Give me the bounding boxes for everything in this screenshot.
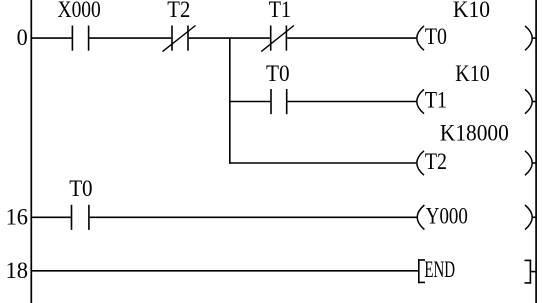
- svg-text:K18000: K18000: [440, 121, 509, 146]
- svg-text:T0: T0: [425, 24, 447, 49]
- svg-text:K10: K10: [453, 0, 490, 22]
- svg-text:Y000: Y000: [426, 203, 468, 228]
- instruction END: [418, 257, 536, 284]
- branch wire (vertical) from rung0 down to rung of T2 coil: [229, 37, 231, 164]
- svg-text:T2: T2: [167, 0, 190, 22]
- coil T0: [417, 24, 536, 50]
- svg-text:T0: T0: [266, 61, 290, 86]
- svg-text:X000: X000: [58, 0, 101, 22]
- left power rail: [30, 0, 32, 303]
- svg-text:K10: K10: [455, 61, 489, 86]
- wire rung16: T0 to coil Y000: [90, 216, 417, 218]
- coil T2: [417, 149, 536, 175]
- coil Y000: [417, 203, 535, 229]
- svg-text:T0: T0: [69, 176, 92, 201]
- wire rung16: rail to T0: [32, 216, 71, 218]
- coil T1: [417, 88, 536, 114]
- wire rung2: branch to contact T0: [230, 101, 270, 103]
- svg-text:16: 16: [6, 205, 28, 230]
- contact X000 (NO): [72, 26, 88, 51]
- right power rail: [535, 0, 537, 303]
- svg-text:T1: T1: [425, 88, 447, 113]
- svg-text:18: 18: [6, 258, 29, 283]
- wire rung18: rail to END instruction: [32, 270, 418, 272]
- wire rung3: branch to coil T2: [230, 162, 416, 164]
- contact T0 (NO, rung16): [72, 205, 89, 230]
- wire rung2: T0 to coil T1: [288, 101, 417, 103]
- contact T1 (NC): [261, 26, 294, 52]
- contact T0 (NO): [271, 89, 287, 114]
- wire rung0: T2 to T1: [189, 37, 270, 39]
- svg-text:T1: T1: [269, 0, 291, 22]
- wire rung0: T1 to coil T0: [287, 37, 416, 39]
- wire rung0: rail to X000: [32, 37, 72, 39]
- svg-text:0: 0: [17, 25, 28, 50]
- wire rung0: X000 to T2: [89, 37, 171, 39]
- contact T2 (NC): [163, 26, 196, 52]
- svg-text:END: END: [424, 257, 455, 282]
- svg-text:T2: T2: [425, 149, 447, 174]
